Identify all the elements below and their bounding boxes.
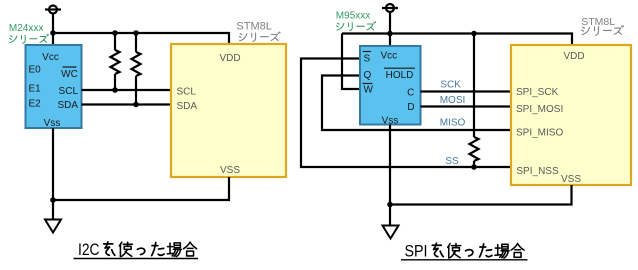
svg-text:SCK: SCK: [440, 80, 461, 91]
wire W-bar tie to Vcc: [342, 34, 360, 90]
svg-text:SPI_MOSI: SPI_MOSI: [516, 104, 563, 115]
node resistor SCL top: [112, 30, 118, 36]
svg-text:Vcc: Vcc: [42, 52, 59, 63]
label M24xxx series: [9, 23, 43, 34]
MCU U2 STM8L box left: [171, 44, 286, 177]
svg-text:D: D: [407, 102, 414, 113]
label series (katakana) left gray: [239, 32, 280, 41]
svg-text:VDD: VDD: [219, 53, 240, 64]
svg-text:I2C: I2C: [78, 241, 100, 259]
wire VSS return right: [390, 185, 572, 205]
wire top rail left: [53, 33, 229, 45]
node resistor SDA bottom: [133, 102, 139, 108]
ground left: [45, 220, 61, 233]
wire Vcc vertical right: [389, 12, 391, 47]
MCU U4 STM8L box right: [511, 45, 631, 185]
svg-text:W: W: [364, 84, 374, 95]
label series (katakana) right green: [337, 22, 376, 31]
svg-text:WC: WC: [61, 69, 78, 80]
label series (katakana) left green: [10, 34, 49, 43]
wire VSS return left: [53, 177, 229, 200]
svg-text:MISO: MISO: [440, 118, 466, 129]
svg-text:MOSI: MOSI: [440, 95, 466, 106]
svg-text:SPI_NSS: SPI_NSS: [516, 166, 559, 177]
svg-text:STM8L: STM8L: [581, 16, 615, 28]
svg-text:VSS: VSS: [220, 165, 240, 176]
svg-text:C: C: [407, 87, 414, 98]
svg-text:HOLD: HOLD: [386, 70, 414, 81]
svg-text:M24xxx: M24xxx: [9, 23, 43, 34]
caption I2C case: [74, 241, 199, 259]
node junction ground left: [50, 197, 56, 203]
supply terminal VCC right: [382, 4, 398, 12]
svg-text:SCL: SCL: [59, 86, 79, 97]
svg-text:Vcc: Vcc: [380, 50, 397, 61]
resistor pull-up SS: [470, 34, 479, 168]
svg-text:Q: Q: [364, 70, 372, 81]
label M95xxx series: [336, 11, 370, 22]
node resistor SS bottom: [471, 164, 477, 170]
node resistor SCL bottom: [112, 87, 118, 93]
svg-text:M95xxx: M95xxx: [336, 11, 370, 22]
svg-text:STM8L: STM8L: [236, 21, 271, 33]
svg-text:SDA: SDA: [177, 101, 198, 112]
label STM8L series left gray: [236, 21, 271, 33]
wire SCL: [82, 89, 172, 91]
svg-text:VSS: VSS: [561, 174, 581, 185]
svg-text:SDA: SDA: [57, 100, 78, 111]
caption SPI case: [401, 242, 528, 260]
EEPROM U1 M24xxx box: [26, 45, 82, 128]
pin label S-bar with overline: [363, 52, 372, 65]
label STM8L series right gray: [581, 16, 615, 28]
wire Vss vertical left: [52, 128, 54, 220]
svg-text:VDD: VDD: [563, 51, 584, 62]
wire S-bar to SS: [301, 59, 511, 168]
wire D to SPI_MOSI: [421, 105, 512, 107]
svg-text:SPI_SCK: SPI_SCK: [516, 87, 559, 98]
svg-text:SCL: SCL: [177, 87, 197, 98]
pin label WC with overline: [61, 67, 78, 80]
svg-text:E2: E2: [29, 99, 42, 110]
ground right: [383, 226, 399, 239]
node junction ground right: [387, 202, 393, 208]
wire Q to MISO: [322, 76, 511, 131]
resistor pull-up SDA: [132, 33, 141, 105]
node resistor SDA top: [133, 30, 139, 36]
wire top rail right: [342, 34, 572, 47]
wire SDA: [82, 103, 172, 105]
node junction pull-up rail: [471, 31, 477, 37]
wire C to SPI_SCK: [421, 90, 512, 92]
pin label HOLD with overline: [384, 68, 415, 81]
svg-text:Vss: Vss: [44, 118, 61, 129]
resistor pull-up SCL: [111, 33, 120, 90]
supply terminal VCC left: [45, 6, 61, 14]
EEPROM U3 M95xxx box: [360, 46, 421, 125]
label series (katakana) right gray: [582, 26, 624, 36]
node junction Vcc rail right: [387, 31, 393, 37]
pin label W-bar with overline: [363, 84, 374, 96]
svg-text:S: S: [364, 53, 371, 64]
svg-text:E1: E1: [29, 84, 42, 95]
svg-text:SS: SS: [445, 156, 459, 167]
svg-text:SPI: SPI: [405, 242, 428, 260]
wire Vcc vertical left: [52, 14, 54, 47]
wire Vss vertical right: [389, 125, 391, 226]
node junction Vcc rail left: [50, 30, 56, 36]
svg-text:SPI_MISO: SPI_MISO: [516, 127, 563, 138]
svg-text:E0: E0: [29, 65, 42, 76]
